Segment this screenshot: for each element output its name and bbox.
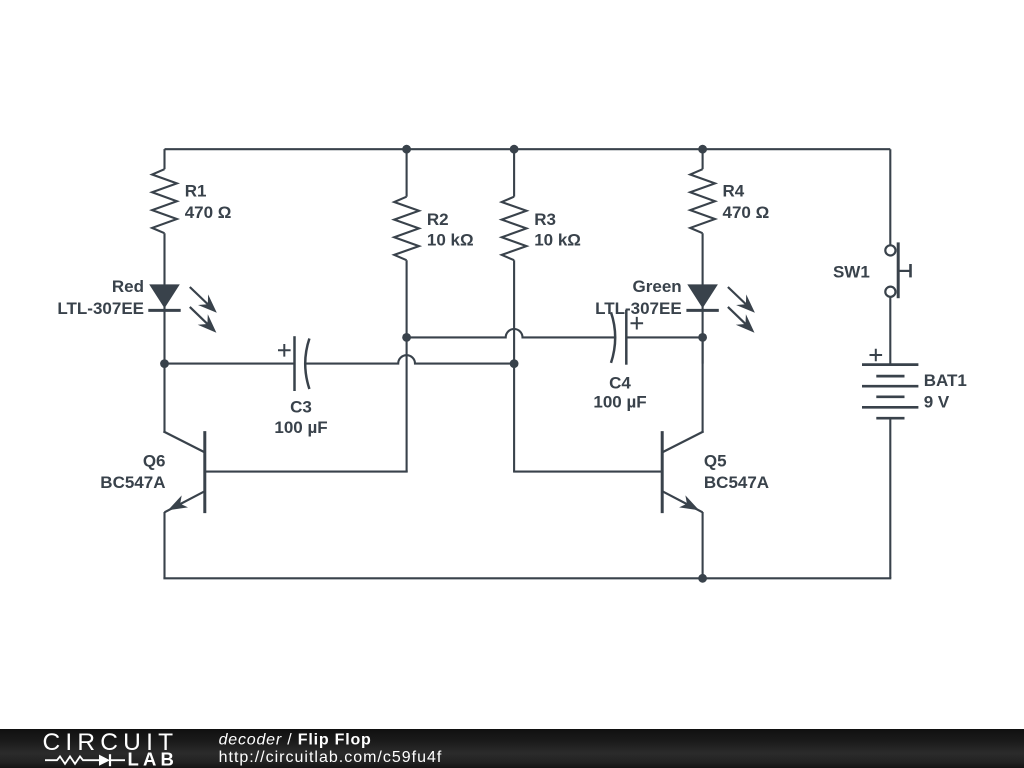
svg-text:Red: Red [112, 277, 144, 296]
svg-text:LTL-307EE: LTL-307EE [595, 299, 682, 318]
wire R1 to LED D1 [163, 233, 165, 363]
svg-text:BC547A: BC547A [704, 473, 769, 492]
svg-text:R3: R3 [534, 210, 556, 229]
transistor Q6 BC547A [163, 431, 204, 452]
resistor R3 [502, 197, 527, 261]
wire R4 branch top [698, 145, 707, 154]
svg-text:decoder / Flip Flop: decoder / Flip Flop [219, 731, 372, 748]
LED D1 Red LTL-307EE [149, 284, 180, 308]
wire LED to Q5 collector [702, 337, 704, 432]
resistor R1 [152, 169, 177, 233]
svg-text:Q6: Q6 [143, 451, 166, 470]
wire battery to bottom rail [889, 418, 891, 578]
battery BAT1 9V [862, 363, 918, 366]
wire Q6 base horizontal [205, 471, 408, 473]
wire SW1 to battery [889, 297, 891, 365]
svg-text:R4: R4 [723, 182, 745, 201]
svg-text:Q5: Q5 [704, 451, 727, 470]
wire left branch vertical [163, 149, 165, 169]
svg-text:10 kΩ: 10 kΩ [427, 231, 474, 250]
wire R2 to base node [406, 260, 408, 471]
wire C4 to Q5 collector node [626, 336, 702, 338]
node collector Q5 junction dot [698, 333, 707, 342]
wire R2 node to C4 with hop over R3 wire [407, 329, 616, 337]
svg-text:BC547A: BC547A [100, 473, 165, 492]
footer bar [0, 729, 1024, 768]
capacitor C4 100uF polarized [611, 312, 615, 363]
wire R4 to LED D2 [702, 233, 704, 363]
svg-text:http://circuitlab.com/c59fu4f: http://circuitlab.com/c59fu4f [219, 749, 443, 766]
node collector Q6 junction dot [160, 359, 169, 368]
svg-text:100 µF: 100 µF [274, 418, 327, 437]
resistor R2 [394, 197, 419, 261]
svg-text:Green: Green [633, 277, 682, 296]
svg-text:SW1: SW1 [833, 262, 870, 281]
node R2-C4 junction dot [402, 333, 411, 342]
svg-text:10 kΩ: 10 kΩ [534, 231, 581, 250]
node Q5 emitter bottom rail junction dot [698, 574, 707, 583]
svg-text:470 Ω: 470 Ω [723, 203, 770, 222]
resistor R4 [690, 169, 715, 233]
capacitor C3 100uF polarized [293, 336, 296, 391]
svg-text:R2: R2 [427, 210, 449, 229]
wire C3 to R3 node with hop over R2 wire [305, 355, 514, 363]
wire top rail to SW1 [889, 149, 891, 245]
wire R3 branch top [510, 145, 519, 154]
wire R3 to base node [513, 260, 515, 471]
svg-text:LAB: LAB [128, 749, 179, 768]
node R3-C3 junction dot [510, 359, 519, 368]
svg-text:100 µF: 100 µF [593, 392, 646, 411]
wire Q5 emitter to ground rail [702, 512, 704, 578]
switch SW1 pushbutton [885, 245, 895, 255]
transistor Q5 BC547A [662, 431, 703, 452]
wire LED to Q6 collector [163, 364, 165, 432]
LED D2 Green LTL-307EE [687, 284, 718, 308]
svg-text:BAT1: BAT1 [924, 371, 967, 390]
wire Q6 emitter to ground rail [163, 512, 165, 578]
svg-text:470 Ω: 470 Ω [185, 203, 232, 222]
svg-text:C3: C3 [290, 397, 312, 416]
wire R2 branch top [402, 145, 411, 154]
wire top supply rail [165, 148, 891, 150]
logo resistor-diode squiggle [45, 756, 125, 764]
svg-text:C4: C4 [609, 374, 631, 393]
svg-text:LTL-307EE: LTL-307EE [57, 299, 144, 318]
wire bottom rail [163, 577, 891, 579]
svg-text:R1: R1 [185, 182, 207, 201]
svg-text:9 V: 9 V [924, 392, 950, 411]
wire Q5 base horizontal [513, 471, 662, 473]
wire node A to C3 [165, 363, 295, 365]
